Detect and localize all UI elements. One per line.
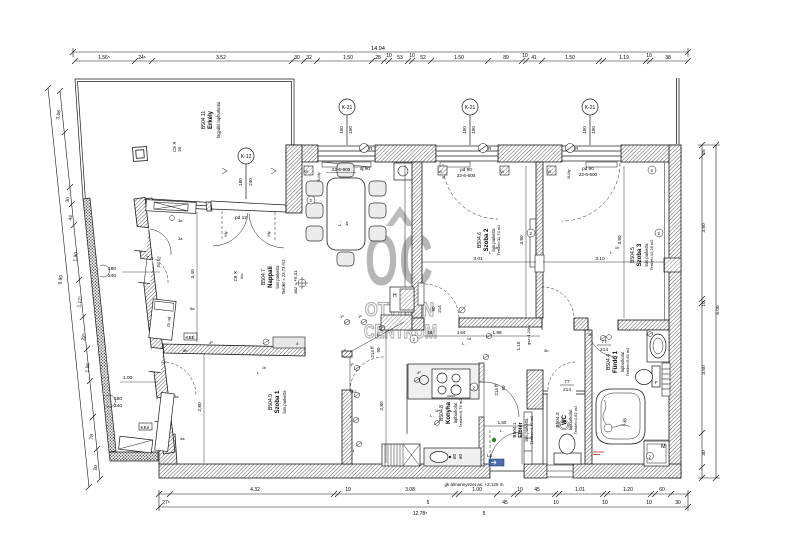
svg-text:1.84: 1.84 bbox=[457, 330, 466, 335]
svg-text:240: 240 bbox=[108, 273, 116, 279]
svg-text:214: 214 bbox=[437, 305, 442, 313]
bottom dim chains bbox=[159, 490, 688, 511]
shaft block H bbox=[390, 287, 414, 312]
svg-text:27⁵: 27⁵ bbox=[162, 500, 170, 506]
small section circles "2" bbox=[307, 166, 663, 343]
interior dim nappali vertical bbox=[196, 212, 198, 342]
svg-text:1º: 1º bbox=[358, 314, 362, 319]
balcony floor drain square bbox=[133, 147, 148, 162]
furdo toilet bbox=[636, 366, 661, 387]
svg-text:3.90: 3.90 bbox=[617, 235, 623, 245]
right wall inner lining line bbox=[664, 162, 666, 330]
svg-text:3a: 3a bbox=[174, 394, 179, 399]
svg-text:9.99: 9.99 bbox=[57, 275, 64, 285]
svg-text:240: 240 bbox=[248, 178, 253, 186]
svg-text:K-21: K-21 bbox=[585, 105, 596, 111]
washing machine M bbox=[644, 441, 669, 466]
top dim chain 2 segments bbox=[75, 60, 688, 62]
svg-text:10: 10 bbox=[646, 53, 652, 59]
small tick labels misc bbox=[174, 236, 593, 441]
svg-text:16: 16 bbox=[428, 330, 433, 335]
svg-text:L .: L . bbox=[500, 428, 504, 433]
svg-text:4º: 4º bbox=[209, 340, 213, 345]
interior dim szoba1 vertical bbox=[203, 354, 205, 463]
left slanted dim chain outer bbox=[48, 88, 100, 487]
svg-text:3.08: 3.08 bbox=[405, 487, 415, 493]
window2 balcony-door swing arc szoba2 bbox=[443, 164, 498, 219]
svg-text:90: 90 bbox=[501, 385, 506, 391]
svg-text:L .: L . bbox=[610, 250, 614, 255]
svg-text:1.80: 1.80 bbox=[72, 252, 79, 262]
balcony parapet bottom strip bbox=[109, 452, 158, 461]
svg-text:Szoba 1: Szoba 1 bbox=[275, 390, 281, 413]
svg-text:240: 240 bbox=[114, 403, 122, 409]
svg-text:10: 10 bbox=[522, 53, 528, 59]
right vertical dim chains bbox=[698, 145, 720, 478]
wall W2 Szoba2/Szoba3 bbox=[536, 162, 543, 318]
svg-text:Terület = 23,73 m2: Terület = 23,73 m2 bbox=[281, 259, 286, 294]
svg-text:fagyálló lapburkolat: fagyálló lapburkolat bbox=[216, 101, 221, 138]
svg-text:B504.3: B504.3 bbox=[555, 412, 561, 428]
striped cabinet block bbox=[382, 444, 420, 466]
svg-text:10: 10 bbox=[646, 500, 652, 506]
svg-text:10: 10 bbox=[409, 53, 415, 59]
shaft block lower bbox=[381, 315, 412, 330]
left wall opening: window 180/240 lower bbox=[155, 397, 170, 422]
svg-text:3a: 3a bbox=[178, 236, 183, 241]
dashed line eloter bbox=[489, 430, 491, 464]
L light marks bbox=[257, 246, 619, 433]
R radiator circles bbox=[360, 144, 575, 153]
svg-text:2,80: 2,80 bbox=[197, 402, 203, 412]
sideboard nappali bottom bbox=[273, 337, 305, 348]
svg-text:10: 10 bbox=[517, 487, 523, 493]
bottom exterior wall bbox=[159, 464, 681, 478]
bath tub bbox=[596, 389, 645, 444]
svg-text:10: 10 bbox=[553, 500, 559, 506]
svg-text:22-6-600: 22-6-600 bbox=[457, 173, 476, 178]
top dim chain 1 overall bbox=[73, 51, 688, 53]
room label Szoba 1 bbox=[268, 390, 287, 414]
furdo shelf line bbox=[644, 439, 669, 441]
left chain labels (rotated) bbox=[55, 110, 99, 471]
dining chairs left column bbox=[306, 163, 386, 266]
svg-text:H: H bbox=[393, 293, 397, 299]
svg-text:53: 53 bbox=[397, 55, 403, 61]
svg-text:1º: 1º bbox=[376, 332, 380, 337]
svg-text:B504.8: B504.8 bbox=[439, 405, 445, 421]
svg-text:10: 10 bbox=[345, 487, 351, 493]
svg-text:28: 28 bbox=[375, 55, 381, 61]
svg-text:KBĖ: KBĖ bbox=[186, 334, 195, 340]
svg-text:60: 60 bbox=[458, 453, 463, 459]
svg-text:89: 89 bbox=[503, 55, 509, 61]
svg-text:3.08: 3.08 bbox=[55, 110, 62, 120]
svg-text:4a: 4a bbox=[180, 436, 185, 441]
svg-text:1.01: 1.01 bbox=[575, 487, 585, 493]
room label WC bbox=[555, 405, 578, 435]
entry door arc bbox=[490, 432, 522, 464]
left wall opening: door 3 bbox=[149, 347, 164, 372]
svg-text:30: 30 bbox=[701, 450, 707, 456]
svg-text:Erkély: Erkély bbox=[208, 110, 214, 129]
svg-text:asz = +5,41: asz = +5,41 bbox=[293, 270, 298, 294]
svg-text:Konyha: Konyha bbox=[446, 401, 452, 424]
mid wall segment D bbox=[618, 320, 669, 330]
svg-text:W: W bbox=[548, 170, 552, 174]
svg-text:aj 90: aj 90 bbox=[360, 166, 370, 171]
svg-text:5a: 5a bbox=[190, 306, 195, 311]
svg-text:10: 10 bbox=[386, 53, 392, 59]
corridor horizontal dim bbox=[424, 335, 540, 337]
svg-text:K-21: K-21 bbox=[465, 105, 476, 111]
svg-text:3.50: 3.50 bbox=[701, 365, 707, 375]
svg-text:1.50: 1.50 bbox=[454, 55, 464, 61]
misc symbol marks bbox=[222, 168, 653, 442]
furdo towel radiator bbox=[662, 363, 670, 396]
room label Nappali bbox=[261, 259, 286, 294]
left wall opening: door 1 bbox=[134, 226, 149, 251]
svg-text:lam.parketta: lam.parketta bbox=[275, 265, 280, 289]
svg-text:oooo: oooo bbox=[447, 394, 455, 398]
left wall opening: window 180/240 upper bbox=[138, 258, 153, 283]
svg-text:30: 30 bbox=[65, 197, 72, 203]
svg-text:3.52: 3.52 bbox=[216, 55, 226, 61]
pd12 door swing arcs bbox=[213, 211, 284, 248]
szoba3 door opening + arc bbox=[542, 318, 574, 330]
svg-text:Terület=11,74 m2: Terület=11,74 m2 bbox=[496, 224, 501, 255]
svg-text:180: 180 bbox=[238, 178, 243, 186]
svg-text:W: W bbox=[305, 170, 309, 174]
left slanted exterior wall bbox=[134, 198, 175, 455]
svg-text:pd 12: pd 12 bbox=[235, 215, 247, 221]
svg-text:1.56⁵: 1.56⁵ bbox=[98, 55, 110, 61]
svg-text:10: 10 bbox=[701, 301, 707, 307]
szoba2 door arc bbox=[424, 284, 459, 318]
svg-text:L .: L . bbox=[337, 221, 342, 226]
bed along left wall bbox=[149, 299, 176, 340]
svg-text:22⁵: 22⁵ bbox=[81, 333, 88, 341]
top dim chain labels bbox=[98, 46, 671, 61]
wardrobe szoba1 left bbox=[155, 392, 175, 451]
svg-text:16: 16 bbox=[177, 146, 182, 152]
radiator strips under windows bbox=[322, 162, 617, 167]
svg-text:214 ff: 214 ff bbox=[370, 346, 375, 358]
wc top wall + door bbox=[543, 391, 585, 394]
top chain2 tick marks bbox=[72, 58, 691, 64]
kitchen left boundary line bbox=[406, 364, 408, 434]
svg-text:32: 32 bbox=[306, 55, 312, 61]
mid wall segment C bbox=[574, 318, 588, 330]
wall W4 szoba1/corridor bbox=[342, 390, 352, 464]
terrace planter bottom-left bbox=[119, 436, 153, 453]
right exterior wall bbox=[669, 145, 681, 478]
window 2 (Szoba 2) bbox=[436, 146, 498, 161]
svg-text:1.00: 1.00 bbox=[123, 375, 133, 381]
level mark nappali bbox=[298, 279, 306, 287]
svg-text:5: 5 bbox=[483, 511, 486, 517]
window 1 (Nappali) bbox=[318, 146, 375, 161]
svg-text:90: 90 bbox=[431, 306, 436, 312]
interior dim line szoba3 bbox=[543, 166, 664, 318]
svg-text:25: 25 bbox=[701, 149, 707, 155]
svg-text:F: F bbox=[655, 380, 658, 385]
furdo door opening + arc bbox=[588, 320, 618, 330]
svg-text:L .: L . bbox=[462, 341, 466, 346]
svg-text:1.50: 1.50 bbox=[565, 55, 575, 61]
svg-text:3,40: 3,40 bbox=[190, 269, 196, 279]
wall W1 Nappali/Szoba2 bbox=[412, 162, 422, 318]
wardrobe strip szoba2 side of W1 bbox=[418, 283, 424, 305]
svg-text:78: 78 bbox=[89, 434, 96, 440]
svg-text:C8 ✕: C8 ✕ bbox=[233, 270, 238, 281]
pd 12 balcony double door opening bbox=[211, 201, 286, 213]
svg-text:W: W bbox=[501, 170, 505, 174]
niche in W2 bbox=[535, 255, 544, 272]
svg-text:150: 150 bbox=[462, 126, 467, 134]
slab joint patch right wall bbox=[664, 258, 681, 272]
svg-text:tbc: tbc bbox=[239, 273, 244, 278]
svg-text:3.90: 3.90 bbox=[701, 223, 707, 233]
svg-text:3.90: 3.90 bbox=[519, 235, 525, 245]
svg-text:K-21: K-21 bbox=[342, 105, 353, 111]
svg-text:10: 10 bbox=[602, 500, 608, 506]
window3 balcony-door swing arc szoba3 bbox=[562, 163, 620, 221]
svg-text:1º: 1º bbox=[340, 314, 344, 319]
KBE label boxes bbox=[184, 333, 197, 340]
svg-text:B504.6: B504.6 bbox=[477, 232, 483, 248]
WC toilet bbox=[554, 434, 581, 464]
svg-text:M: M bbox=[661, 444, 666, 450]
balcony parapet stippled bbox=[83, 198, 116, 452]
svg-text:1,50: 1,50 bbox=[498, 420, 507, 425]
svg-text:22-6-900: 22-6-900 bbox=[332, 167, 351, 172]
mid wall segment B bbox=[459, 318, 542, 327]
svg-text:5b: 5b bbox=[183, 348, 188, 353]
text 180/240 upper left window bbox=[108, 266, 116, 279]
kitchen sink counter bottom bbox=[424, 448, 481, 466]
svg-text:1a: 1a bbox=[344, 221, 349, 226]
svg-text:90: 90 bbox=[376, 347, 381, 353]
svg-text:B504.7: B504.7 bbox=[261, 269, 267, 285]
svg-text:22-6-600: 22-6-600 bbox=[579, 172, 598, 177]
svg-text:1.00: 1.00 bbox=[472, 487, 482, 493]
svg-text:B504.5: B504.5 bbox=[630, 247, 636, 263]
svg-text:My: My bbox=[223, 231, 228, 236]
dashed diagonal corridor bbox=[350, 322, 404, 352]
mid wall segment A bbox=[412, 318, 424, 330]
svg-text:L .: L . bbox=[257, 370, 261, 375]
K-21 circle 2 bbox=[462, 99, 478, 145]
eloter wardrobe strip bbox=[524, 412, 532, 464]
svg-text:B-My: B-My bbox=[316, 172, 321, 181]
svg-text:30: 30 bbox=[294, 55, 300, 61]
svg-text:1.20: 1.20 bbox=[623, 487, 633, 493]
svg-text:L .: L . bbox=[430, 413, 434, 418]
svg-text:1b: 1b bbox=[615, 246, 619, 250]
room label Szoba 2 bbox=[477, 224, 501, 255]
svg-text:214: 214 bbox=[563, 387, 571, 393]
svg-text:3.01: 3.01 bbox=[473, 256, 483, 262]
balcony room label bbox=[201, 101, 221, 138]
svg-text:pd 90: pd 90 bbox=[460, 167, 472, 172]
balcony-nappali window sill band bbox=[146, 198, 212, 211]
svg-text:1b: 1b bbox=[494, 246, 498, 250]
svg-text:30: 30 bbox=[675, 500, 681, 506]
nappali top-left counter + radiator bbox=[146, 200, 197, 214]
svg-text:W: W bbox=[439, 170, 443, 174]
svg-text:1.19: 1.19 bbox=[619, 55, 629, 61]
svg-text:4º: 4º bbox=[417, 370, 421, 375]
furdo washbasin bbox=[647, 330, 669, 362]
svg-text:L .: L . bbox=[489, 250, 493, 255]
window 3 (Szoba 3) bbox=[562, 146, 621, 161]
svg-text:1.56: 1.56 bbox=[84, 363, 91, 373]
WW vent boxes bbox=[304, 166, 556, 175]
left wall door3 arc dashed bbox=[161, 362, 196, 395]
dining table bbox=[327, 178, 365, 250]
svg-text:14.94: 14.94 bbox=[371, 46, 385, 52]
svg-text:B-My: B-My bbox=[566, 169, 571, 178]
svg-text:52: 52 bbox=[420, 55, 426, 61]
corner wall block balcony/top wall bbox=[286, 145, 302, 213]
interior dim line szoba2 horizontal bbox=[422, 166, 536, 318]
svg-text:77: 77 bbox=[601, 339, 607, 345]
svg-text:Szoba 3: Szoba 3 bbox=[637, 243, 643, 266]
svg-text:1.10: 1.10 bbox=[516, 341, 521, 350]
svg-text:20: 20 bbox=[93, 465, 100, 471]
wc left wall bbox=[543, 394, 547, 464]
svg-text:1º: 1º bbox=[350, 362, 354, 367]
svg-text:45: 45 bbox=[534, 487, 540, 493]
watermark logo OC Otthon Centrum bbox=[364, 206, 437, 343]
svg-text:1.50: 1.50 bbox=[343, 55, 353, 61]
svg-text:24⁶: 24⁶ bbox=[138, 55, 146, 61]
svg-text:B504.4: B504.4 bbox=[606, 354, 612, 370]
red note text bbox=[593, 452, 604, 455]
svg-text:5: 5 bbox=[427, 500, 430, 506]
svg-text:3.10: 3.10 bbox=[595, 256, 605, 262]
svg-text:41: 41 bbox=[531, 55, 537, 61]
eloter dim bbox=[484, 425, 524, 427]
svg-text:60: 60 bbox=[659, 487, 665, 493]
wc/furdo wall W8 bbox=[585, 330, 592, 464]
svg-text:1b: 1b bbox=[435, 409, 439, 413]
interior dim corridor vertical bbox=[385, 331, 387, 463]
svg-text:6.05: 6.05 bbox=[715, 305, 721, 315]
svg-text:K-12: K-12 bbox=[241, 154, 252, 160]
small window in bottom wall bbox=[547, 465, 573, 477]
svg-text:38: 38 bbox=[665, 55, 671, 61]
svg-text:Nappali: Nappali bbox=[268, 266, 274, 288]
svg-text:44: 44 bbox=[68, 215, 75, 221]
bottom-left corner block bbox=[159, 434, 177, 464]
left wall door1 arc bbox=[146, 229, 171, 283]
szoba2 door opening jambs bbox=[424, 318, 459, 328]
svg-text:2b: 2b bbox=[588, 332, 593, 337]
svg-text:214: 214 bbox=[600, 347, 608, 353]
top exterior wall with window openings bbox=[286, 145, 681, 162]
svg-text:45: 45 bbox=[502, 500, 508, 506]
svg-text:B504.11: B504.11 bbox=[201, 111, 207, 129]
svg-text:1b: 1b bbox=[262, 366, 266, 370]
svg-text:Terület=4,42 m2: Terület=4,42 m2 bbox=[529, 415, 534, 445]
svg-text:KKé: KKé bbox=[141, 425, 150, 430]
room label Furdo 1 bbox=[606, 347, 630, 377]
room label Konyha bbox=[439, 398, 463, 428]
entry door opening in bottom wall bbox=[490, 464, 524, 478]
svg-text:My: My bbox=[266, 231, 271, 236]
entry marker blue bbox=[489, 459, 504, 466]
svg-text:4.32: 4.32 bbox=[250, 487, 260, 493]
svg-text:2,80: 2,80 bbox=[379, 401, 385, 411]
text 180/240 lower left window bbox=[114, 396, 122, 409]
svg-text:214 ff: 214 ff bbox=[494, 384, 499, 396]
svg-text:Szoba 2: Szoba 2 bbox=[484, 228, 490, 251]
svg-text:77: 77 bbox=[564, 379, 570, 385]
svg-text:pd 90: pd 90 bbox=[582, 166, 594, 171]
svg-text:Terület=6,65 m2: Terület=6,65 m2 bbox=[625, 347, 630, 377]
svg-text:150: 150 bbox=[348, 126, 353, 134]
kitchen/eloter wall W6 bbox=[479, 363, 484, 382]
eloter/wc wall block W7 bbox=[527, 370, 543, 409]
room label Eloter bbox=[512, 415, 534, 445]
W5 opening jambs bbox=[305, 347, 345, 358]
szoba1 door arc bbox=[350, 357, 384, 391]
svg-text:12.78⁵: 12.78⁵ bbox=[413, 511, 428, 517]
balcony outline double line bbox=[75, 79, 294, 201]
svg-text:150: 150 bbox=[582, 126, 587, 134]
svg-text:150: 150 bbox=[591, 126, 596, 134]
svg-text:150: 150 bbox=[339, 126, 344, 134]
kitchen counter with stove bbox=[408, 364, 479, 399]
svg-text:1d: 1d bbox=[467, 337, 471, 341]
svg-text:3b: 3b bbox=[544, 348, 549, 353]
svg-text:150: 150 bbox=[471, 126, 476, 134]
svg-text:Terület=1,82 m2: Terület=1,82 m2 bbox=[573, 405, 578, 435]
svg-text:gk álmennyezet as: +2,125 m: gk álmennyezet as: +2,125 m bbox=[445, 482, 504, 487]
svg-text:Terület=12,28 m2: Terület=12,28 m2 bbox=[649, 239, 654, 271]
svg-text:Fürdő 1: Fürdő 1 bbox=[613, 350, 619, 373]
svg-text:B504.9: B504.9 bbox=[268, 394, 274, 410]
K-21 circle 1 bbox=[339, 99, 355, 145]
eloter door arc bbox=[484, 382, 519, 417]
room label Szoba 3 bbox=[630, 239, 654, 271]
neighbour boundary line top right bbox=[677, 78, 680, 144]
duct box next to window1 bbox=[394, 163, 413, 180]
svg-text:Terület=9,75 m2: Terület=9,75 m2 bbox=[458, 398, 463, 428]
svg-text:1.98: 1.98 bbox=[492, 330, 502, 336]
svg-text:60: 60 bbox=[452, 453, 457, 459]
svg-text:gsz=1,20m: gsz=1,20m bbox=[526, 325, 531, 345]
electrical symbols corridor bbox=[344, 319, 606, 446]
svg-text:lam.parketta: lam.parketta bbox=[282, 390, 287, 414]
svg-text:3a: 3a bbox=[178, 218, 183, 223]
nappali bottom wall W5 bbox=[163, 344, 305, 356]
K-21 circle 3 bbox=[582, 99, 598, 145]
K-12 window circle bbox=[238, 148, 254, 199]
svg-text:MG: MG bbox=[350, 389, 356, 394]
